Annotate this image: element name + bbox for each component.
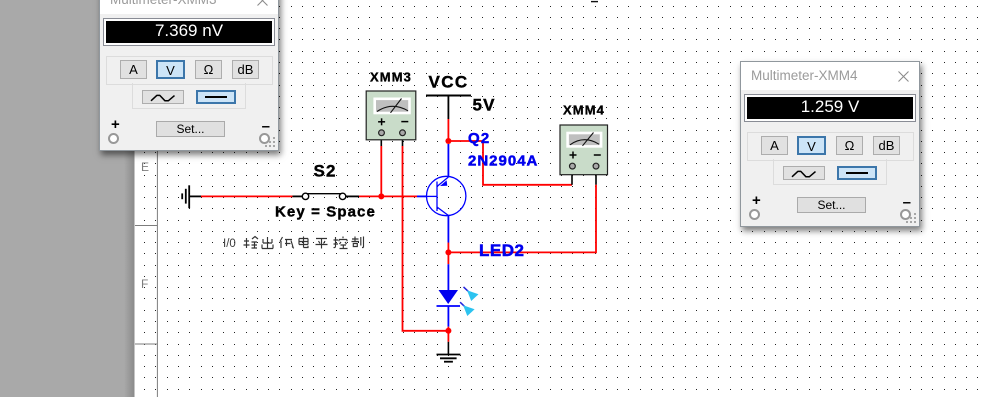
multimeter panel XMM3 (99, 0, 279, 151)
plus terminal jack (108, 133, 119, 144)
wire red segment at LED2 node (447, 243, 449, 265)
button DC (selected) (837, 166, 877, 180)
ground (bottom) (437, 355, 461, 362)
multimeter panel XMM4 (740, 61, 920, 227)
junction node Q2 emitter (445, 138, 451, 144)
junction node LED2 (445, 249, 451, 255)
LED light arrow 2 (460, 302, 475, 316)
wire to ground symbol (447, 342, 449, 355)
close button (898, 71, 909, 82)
close button (257, 0, 268, 6)
ground (left of S2) (182, 185, 201, 208)
plus terminal label (752, 192, 761, 209)
wire VCC stem to node Q2-emitter (447, 119, 449, 141)
Set button (797, 197, 866, 213)
partial element at top edge (591, 1, 598, 2)
plus terminal label (111, 116, 120, 133)
junction node ground (445, 328, 451, 334)
minus terminal label (903, 194, 911, 211)
wire base segment (blue) (417, 195, 427, 197)
svg-text:S2: S2 (314, 162, 337, 181)
button AC waveform (783, 166, 825, 180)
switch S2 (293, 193, 360, 199)
wire XMM3 minus terminal down to bottom node (403, 146, 449, 331)
title bar XMM4 (741, 62, 919, 90)
button dB (232, 60, 259, 79)
title text Multimeter-XMM3 (110, 0, 217, 7)
glyph dian (electric-level-1) (299, 237, 308, 248)
LED LED2 (437, 290, 461, 306)
annotation I/O output-low-control (CJK drawn as strokes) (223, 237, 364, 251)
wire junction to Q2 emitter (blue) (447, 144, 449, 177)
title text Multimeter-XMM4 (751, 68, 858, 83)
svg-text:2N2904A: 2N2904A (468, 153, 538, 170)
minus terminal jack (900, 209, 911, 220)
svg-text:XMM4: XMM4 (563, 103, 605, 118)
button Ohm (836, 136, 863, 155)
button V (selected) (156, 60, 185, 79)
title bar XMM3 (100, 0, 278, 14)
button V (selected) (797, 136, 826, 155)
minus terminal jack (259, 133, 270, 144)
glyph zhi (control-2) (352, 237, 364, 248)
wire XMM3 plus terminal down to base node (380, 146, 382, 196)
button Ohm (195, 60, 222, 79)
svg-text:LED2: LED2 (479, 241, 524, 260)
svg-text:F: F (141, 277, 148, 291)
svg-text:XMM3: XMM3 (370, 70, 412, 85)
svg-text:VCC: VCC (429, 73, 469, 92)
wire node to LED anode (blue) (447, 264, 449, 290)
wire node to XMM4 plus terminal (448, 141, 572, 185)
instrument icon XMM4 (560, 125, 608, 185)
junction node base / XMM3 plus (378, 193, 384, 199)
wire LED cathode (blue) (447, 306, 449, 327)
svg-text:I/0: I/0 (223, 238, 236, 250)
button A (761, 136, 788, 155)
wire LED2 node to XMM4 minus terminal (448, 185, 596, 253)
button dB (873, 136, 900, 155)
svg-text:Key = Space: Key = Space (275, 204, 376, 221)
resize grip (264, 136, 277, 149)
svg-text:Q2: Q2 (468, 130, 490, 147)
measurement display XMM4 (744, 94, 916, 122)
power symbol VCC (426, 96, 471, 120)
LED light arrow 1 (464, 287, 479, 301)
wire red segment at ground node (447, 327, 449, 342)
Set button (156, 121, 225, 137)
instrument icon XMM3 (366, 91, 416, 146)
glyph kong (control-1) (334, 237, 348, 249)
button DC (selected) (196, 90, 236, 104)
wire ground to S2 (201, 195, 293, 197)
mode group boxes (747, 132, 914, 161)
svg-text:5V: 5V (473, 96, 496, 115)
glyph chu (output-2) (262, 237, 273, 249)
glyph ping (level) (316, 239, 328, 249)
resize grip (905, 212, 918, 225)
measurement display XMM3 (103, 18, 275, 46)
glyph shu (output-1) (244, 237, 259, 249)
glyph di (low) (280, 237, 294, 248)
minus terminal label (262, 118, 270, 135)
svg-text:E: E (141, 160, 149, 174)
mode group boxes (106, 56, 273, 85)
wire S2 to Q2 base (359, 195, 417, 197)
button AC waveform (142, 90, 184, 104)
plus terminal jack (749, 209, 760, 220)
transistor Q2 (PNP) (427, 176, 466, 215)
button A (120, 60, 147, 79)
wire Q2 collector (blue) (447, 216, 449, 243)
